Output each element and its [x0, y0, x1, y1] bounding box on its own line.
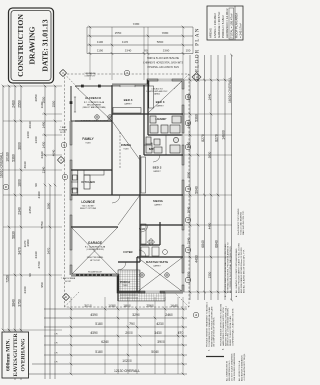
svg-text:2980: 2980 [26, 239, 30, 246]
svg-text:5360: 5360 [11, 154, 15, 162]
svg-text:H: H [62, 144, 66, 146]
room sub notes [84, 101, 105, 104]
svg-text:T. BAR SCREEN: T. BAR SCREEN [61, 277, 76, 280]
alfresco diagonal [75, 86, 112, 121]
master suite diagonals [137, 257, 183, 292]
door arcs [104, 113, 160, 270]
svg-text:1430: 1430 [34, 136, 38, 143]
svg-text:B: B [64, 296, 68, 298]
svg-text:AREA: AREA [154, 93, 160, 96]
interior walls [71, 80, 183, 301]
svg-text:470: 470 [178, 331, 184, 335]
svg-text:TILES: TILES [123, 148, 129, 150]
svg-text:LOUNGE: LOUNGE [81, 200, 95, 204]
svg-text:5890: 5890 [157, 40, 164, 44]
svg-text:2340: 2340 [125, 49, 132, 53]
svg-text:H: H [125, 72, 129, 74]
verandah posts [70, 85, 101, 104]
svg-text:B: B [4, 186, 8, 188]
svg-text:TILES: TILES [122, 285, 128, 287]
window door markers [59, 69, 67, 77]
svg-text:SELECTED PANEL: SELECTED PANEL [87, 256, 104, 259]
svg-text:A: A [59, 159, 63, 161]
svg-text:2360: 2360 [163, 49, 170, 53]
eaves dashed outline [65, 74, 190, 307]
bottom dimension strip [186, 54, 233, 302]
svg-text:4730: 4730 [37, 261, 41, 268]
svg-text:HEAT PUMP AND SVC: HEAT PUMP AND SVC [147, 90, 168, 93]
ensuite fixtures [141, 247, 167, 256]
svg-text:150: 150 [186, 49, 191, 53]
svg-text:4230: 4230 [156, 322, 164, 326]
svg-text:TILES: TILES [85, 142, 91, 144]
svg-text:16010 OVERALL: 16010 OVERALL [228, 77, 232, 103]
svg-text:5040: 5040 [194, 186, 198, 194]
svg-text:6840: 6840 [201, 240, 205, 248]
svg-text:2560: 2560 [146, 304, 154, 308]
marker E inside plan [147, 238, 154, 245]
kitchen pantry [71, 170, 104, 189]
svg-text:2460: 2460 [165, 313, 173, 317]
svg-text:5180: 5180 [95, 350, 103, 354]
svg-text:2440: 2440 [34, 251, 38, 258]
svg-text:1640: 1640 [170, 304, 178, 308]
svg-text:5830: 5830 [11, 231, 15, 239]
bed3 diagonal [148, 80, 183, 113]
svg-text:7: 7 [186, 96, 190, 98]
svg-text:ON COMPLETION OF WORKS.: ON COMPLETION OF WORKS. [214, 317, 216, 347]
svg-text:2350: 2350 [28, 206, 32, 213]
svg-text:2.: 2. [223, 348, 225, 350]
svg-text:175: 175 [54, 362, 58, 364]
bottom centre note paragraphs [224, 208, 246, 297]
svg-text:90: 90 [144, 49, 148, 53]
left extension lines [71, 297, 183, 374]
right extension lines [90, 27, 183, 80]
svg-text:2050: 2050 [34, 94, 38, 101]
svg-text:GARAGE: GARAGE [88, 241, 102, 245]
kitchen bench [72, 170, 90, 195]
svg-text:175: 175 [54, 343, 58, 345]
svg-text:LAUNDRY: LAUNDRY [155, 118, 167, 121]
porch steps [120, 295, 138, 298]
svg-text:2: 2 [186, 249, 190, 251]
bottom left notes block [206, 352, 246, 381]
garage door line [76, 274, 112, 276]
alfresco column symbols [95, 115, 100, 120]
svg-text:2440: 2440 [207, 93, 211, 100]
laundry bath fixtures [146, 116, 180, 153]
svg-text:8270: 8270 [214, 134, 218, 142]
svg-text:4190: 4190 [37, 191, 41, 198]
svg-text:AND ALL GLAZING BELOW 500mm AF: AND ALL GLAZING BELOW 500mm AFL. TYP. [243, 249, 246, 293]
construction drawing stamp [9, 8, 54, 83]
svg-text:1800: 1800 [17, 179, 21, 187]
svg-text:CHIMNEYS HORIZONTAL SASH WTS: CHIMNEYS HORIZONTAL SASH WTS [143, 62, 183, 65]
svg-text:950: 950 [40, 282, 44, 287]
svg-text:W.I.R: W.I.R [139, 228, 145, 231]
svg-text:3.: 3. [225, 295, 227, 297]
svg-text:FLOOR PLAN: FLOOR PLAN [195, 27, 201, 72]
svg-text:CARPET: CARPET [153, 170, 162, 173]
svg-text:1430: 1430 [26, 131, 30, 138]
svg-text:3900: 3900 [157, 340, 165, 344]
svg-text:10160: 10160 [5, 152, 9, 162]
svg-text:2550: 2550 [115, 31, 122, 35]
hip roof corner diagonals [65, 74, 190, 307]
svg-text:4640: 4640 [51, 149, 55, 156]
svg-text:1.: 1. [209, 349, 211, 351]
svg-text:90: 90 [34, 183, 38, 187]
alfresco open edges (thin) [71, 85, 112, 121]
svg-text:7080: 7080 [162, 31, 169, 35]
windows on outer walls [70, 250, 73, 265]
svg-text:MASTER SUITE: MASTER SUITE [146, 260, 168, 264]
svg-text:1430: 1430 [41, 141, 45, 148]
garage diagonals [71, 227, 118, 275]
svg-text:2340: 2340 [40, 151, 44, 158]
svg-text:3010: 3010 [84, 304, 92, 308]
svg-text:DINING: DINING [121, 143, 132, 147]
svg-text:FAMILY: FAMILY [82, 137, 94, 141]
svg-text:OVERHANG: OVERHANG [21, 338, 27, 372]
robes [113, 86, 154, 244]
master suite column symbols [140, 273, 145, 278]
svg-text:BED 2: BED 2 [153, 166, 162, 170]
svg-text:ALL OPENINGS IN EXTERNAL WALLS: ALL OPENINGS IN EXTERNAL WALLS AS REQD. [229, 245, 232, 293]
svg-text:CONFIRM FINAL LOCATIONS ON SIT: CONFIRM FINAL LOCATIONS ON SITE. [232, 308, 235, 346]
svg-text:1800: 1800 [123, 304, 131, 308]
svg-text:WALLS AT 450 CRS. TYP.: WALLS AT 450 CRS. TYP. [242, 210, 245, 235]
svg-text:2460: 2460 [11, 100, 15, 108]
svg-text:10200: 10200 [122, 359, 132, 363]
svg-text:PORCH: PORCH [120, 280, 129, 284]
svg-text:5360: 5360 [194, 114, 198, 122]
top dimension strip [0, 85, 56, 380]
dining diagonal [112, 121, 140, 225]
right strip end connectors [87, 27, 193, 54]
floor plan title [192, 27, 201, 81]
note paragraph 1 [206, 301, 216, 351]
svg-text:SMOKE BLOCKERS SUNLINE: SMOKE BLOCKERS SUNLINE [147, 58, 180, 60]
svg-text:2340: 2340 [17, 207, 21, 215]
bulkhead dashed line [119, 132, 121, 168]
svg-text:175: 175 [54, 353, 58, 355]
svg-text:R.C. CONCRETE SLAB: R.C. CONCRETE SLAB [85, 246, 106, 249]
svg-text:(-0.09m IN RECESS): (-0.09m IN RECESS) [86, 249, 104, 251]
svg-text:90: 90 [28, 273, 32, 277]
svg-text:4490: 4490 [194, 255, 198, 263]
svg-text:4640: 4640 [28, 121, 32, 128]
porch hatched [118, 270, 165, 301]
svg-text:3080: 3080 [46, 202, 50, 209]
svg-text:4390: 4390 [90, 331, 98, 335]
svg-text:16010 OVERALL: 16010 OVERALL [0, 152, 3, 178]
svg-text:4390: 4390 [90, 313, 98, 317]
svg-text:CARPET: CARPET [154, 203, 163, 206]
svg-text:(SELECT AND RESTRAIN): (SELECT AND RESTRAIN) [82, 106, 105, 109]
svg-text:DOOR: DOOR [65, 281, 71, 283]
svg-text:DOOR: DOOR [60, 132, 66, 134]
svg-text:5180: 5180 [95, 322, 103, 326]
svg-text:3840: 3840 [11, 299, 15, 307]
svg-text:3430: 3430 [154, 331, 162, 335]
areas table [207, 6, 243, 40]
svg-text:4490: 4490 [207, 222, 211, 229]
note paragraph 2 [220, 303, 235, 350]
svg-text:2430: 2430 [23, 286, 27, 293]
room labels [85, 96, 102, 100]
svg-text:7280: 7280 [133, 22, 140, 26]
svg-text:2900: 2900 [186, 171, 190, 178]
svg-text:ALUMINIUM SLIDING DOOR: ALUMINIUM SLIDING DOOR [81, 120, 107, 123]
svg-text:4.: 4. [235, 295, 238, 297]
svg-text:MEDIA: MEDIA [153, 199, 164, 203]
svg-text:2550: 2550 [51, 100, 55, 107]
svg-text:5830: 5830 [207, 151, 211, 158]
svg-text:2140: 2140 [186, 237, 190, 244]
svg-text:5: 5 [186, 146, 190, 148]
svg-text:6: 6 [186, 122, 190, 124]
svg-text:8270: 8270 [201, 134, 205, 142]
svg-text:R.C. CONCRETE SLAB: R.C. CONCRETE SLAB [84, 101, 105, 104]
end tick labels left strip [54, 334, 58, 364]
svg-text:FOYER: FOYER [124, 250, 133, 254]
right dimension strip [87, 22, 193, 55]
svg-text:E: E [150, 241, 153, 243]
svg-text:5750: 5750 [40, 221, 44, 228]
svg-text:SELECT OPTIONS: SELECT OPTIONS [80, 208, 97, 210]
svg-text:TOTAL = 195.47m²: TOTAL = 195.47m² [230, 14, 234, 38]
mid band dimension numbers [23, 94, 44, 293]
svg-text:DATE: 31.01.13: DATE: 31.01.13 [41, 19, 50, 71]
svg-text:• LOCAL AUTHORITY REQS.: • LOCAL AUTHORITY REQS. [243, 353, 246, 381]
svg-text:C: C [61, 72, 65, 74]
svg-text:CARPET: CARPET [124, 103, 133, 106]
svg-text:3640: 3640 [23, 161, 27, 168]
svg-text:OVER POST: OVER POST [84, 76, 96, 78]
svg-text:ALFRESCO: ALFRESCO [85, 96, 102, 100]
svg-text:175: 175 [54, 334, 58, 336]
svg-text:3750: 3750 [17, 299, 21, 307]
svg-text:2550: 2550 [17, 100, 21, 108]
svg-text:USE FIGURED DIMENSIONS: USE FIGURED DIMENSIONS [234, 352, 236, 381]
svg-text:1080: 1080 [108, 304, 116, 308]
svg-text:2140: 2140 [41, 166, 45, 173]
svg-text:600mm MIN.: 600mm MIN. [6, 338, 12, 371]
svg-text:2000: 2000 [125, 331, 133, 335]
svg-text:2040: 2040 [186, 206, 190, 213]
eaves overhang stamp [2, 332, 29, 378]
svg-text:1490: 1490 [41, 121, 45, 128]
svg-text:CARPET: CARPET [153, 264, 162, 267]
svg-text:D: D [63, 176, 67, 178]
outer walls [71, 80, 183, 292]
svg-text:CONSTRUCTION: CONSTRUCTION [16, 14, 25, 77]
svg-text:DRAWING: DRAWING [28, 26, 37, 64]
svg-text:1190: 1190 [97, 49, 104, 53]
svg-text:1190: 1190 [97, 40, 104, 44]
bath extra fixtures [144, 116, 183, 155]
svg-text:1170: 1170 [122, 40, 129, 44]
svg-text:4: 4 [186, 188, 190, 190]
svg-text:E: E [194, 314, 198, 316]
svg-text:INTERNAL EXCLUSION. SGN: INTERNAL EXCLUSION. SGN [147, 66, 179, 69]
svg-text:1190: 1190 [40, 101, 44, 108]
bottom extension lines [183, 80, 232, 292]
svg-text:6840: 6840 [214, 240, 218, 248]
svg-text:BED 4: BED 4 [124, 98, 133, 102]
svg-text:3290: 3290 [132, 313, 140, 317]
bed3 ceiling note [147, 89, 168, 96]
svg-text:3470: 3470 [17, 247, 21, 255]
svg-text:3: 3 [186, 219, 190, 221]
bed2 robe [141, 157, 146, 193]
svg-text:CARPET: CARPET [156, 105, 165, 108]
left dimension strip [20, 304, 187, 375]
svg-text:1: 1 [186, 279, 190, 281]
smoke blockers annotation (horizontal in portrait) [143, 58, 183, 69]
svg-text:LIFT DOOR: LIFT DOOR [90, 260, 101, 262]
svg-text:KITCHEN: KITCHEN [81, 180, 94, 184]
svg-text:= 245.17m²: = 245.17m² [238, 23, 242, 38]
svg-text:F: F [195, 76, 199, 78]
svg-text:790: 790 [129, 322, 135, 326]
svg-text:3470: 3470 [46, 247, 50, 254]
svg-text:ROLLER DOOR: ROLLER DOOR [88, 272, 102, 274]
top extension lines [3, 86, 62, 330]
svg-text:3600: 3600 [17, 142, 21, 150]
svg-text:EAVES/GUTTER: EAVES/GUTTER [13, 332, 19, 376]
svg-text:7250: 7250 [5, 275, 9, 283]
svg-text:BED 3: BED 3 [156, 100, 165, 104]
svg-text:ALFRESCO = 14.06m²: ALFRESCO = 14.06m² [225, 8, 229, 38]
svg-text:2350: 2350 [207, 271, 211, 278]
